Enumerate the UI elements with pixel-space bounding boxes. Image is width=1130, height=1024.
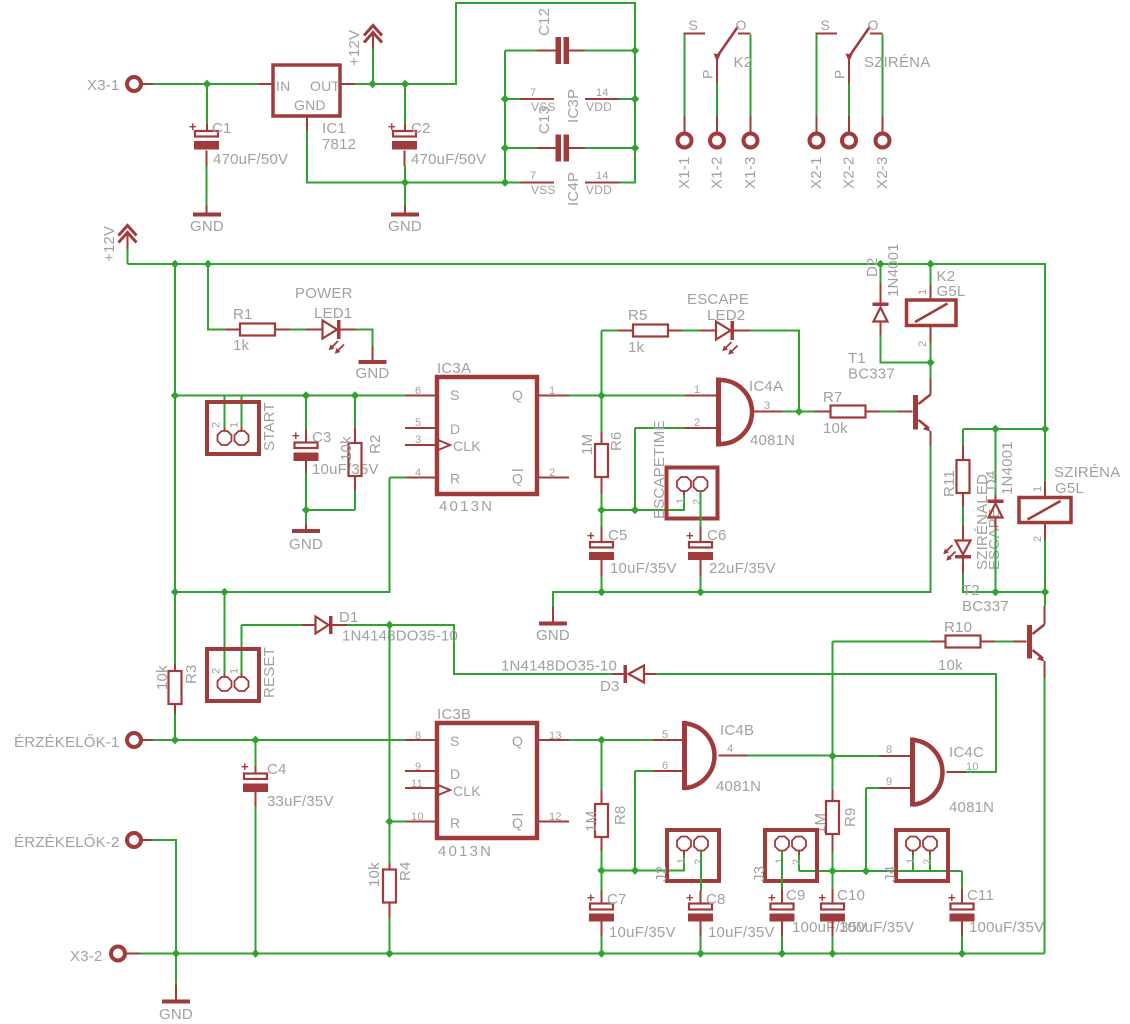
svg-text:C12: C12 [536,8,553,36]
svg-text:D3: D3 [600,678,620,695]
wire C2 top [404,84,406,124]
svg-text:10k: 10k [154,665,171,690]
svg-text:10: 10 [411,811,424,823]
wire x832 vertical R10 to R9 [832,642,834,791]
svg-text:10k: 10k [823,420,848,437]
svg-text:1k: 1k [233,337,250,354]
svg-text:33uF/35V: 33uF/35V [267,793,334,810]
LED LED1 POWER [323,321,338,339]
svg-text:R10: R10 [944,619,972,636]
svg-text:VDD: VDD [586,183,612,197]
svg-text:+: + [768,890,776,905]
svg-text:D4: D4 [983,470,1000,490]
LED LED2 ESCAPE [682,330,700,332]
svg-text:X2-3: X2-3 [874,157,891,190]
wire IC4A output to R7 [782,411,814,413]
svg-text:14: 14 [596,170,609,182]
resistor R10 10k [833,641,931,643]
svg-text:1N4148DO35-10: 1N4148DO35-10 [501,658,617,675]
junction R3 bottom [171,736,179,744]
svg-text:R7: R7 [823,389,843,406]
svg-text:J4: J4 [882,866,899,882]
capacitor C7 10uF/35V [590,904,613,910]
junction SZIRENALED D4 bottom [991,588,999,596]
svg-text:+: + [189,119,197,134]
resistor R4 10k [383,870,396,903]
svg-text:O: O [868,17,879,33]
junction VSS at pin7 IC4P [501,178,509,186]
svg-text:Q: Q [512,815,523,831]
wire C10 bottom [832,922,834,937]
power pins IC3P pin 7 VSS pin 14 VDD [520,98,620,100]
svg-text:100uF/35V: 100uF/35V [839,919,914,936]
pushbutton RESET [207,649,259,701]
svg-text:4081N: 4081N [949,799,994,816]
svg-text:1k: 1k [628,339,645,356]
svg-text:C6: C6 [707,527,727,544]
diode D4 1N4001 [995,496,997,501]
svg-text:+: + [587,528,595,543]
resistor R9 1M [826,801,839,834]
wire ERZEKELOK-1 row [141,739,153,741]
svg-text:IC4A: IC4A [749,378,783,395]
svg-text:S: S [450,387,460,403]
ground bottom left [162,1000,190,1004]
junction D1 net at x389 [385,621,393,629]
ground under C1 [193,213,221,217]
svg-text:1: 1 [675,498,687,504]
svg-text:C3: C3 [312,429,332,446]
svg-text:10uF/35V: 10uF/35V [708,924,775,941]
wire J2 row [602,852,685,871]
svg-text:C1: C1 [212,120,232,137]
svg-text:+: + [686,890,694,905]
capacitor C8 10uF/35V [689,904,712,910]
wire R2 bottom link [306,490,355,510]
junction R2 top [351,391,359,399]
junction C4 top [251,736,259,744]
svg-text:4: 4 [415,467,421,479]
junction C2 at GND net [401,178,409,186]
svg-text:470uF/50V: 470uF/50V [213,151,288,168]
svg-text:R3: R3 [183,664,200,684]
power pins IC4P pin 7 VSS pin 14 VDD [520,182,620,184]
svg-text:IN: IN [276,78,290,94]
svg-text:22uF/35V: 22uF/35V [709,560,776,577]
junction relay SZIRENA pin1 top [1041,425,1049,433]
wire C5 bottom [601,560,603,576]
wire IC3B Q net to IC4B pin5 [569,740,653,790]
svg-text:9: 9 [415,761,421,773]
svg-text:GND: GND [190,218,224,235]
junction bottom rail C7 [597,949,605,957]
svg-text:OUT: OUT [310,78,340,94]
svg-text:C4: C4 [267,761,287,778]
svg-text:1: 1 [905,858,917,864]
capacitor C6 22uF/35V [689,542,712,548]
wire START rail to IC3A S [175,395,405,397]
ground under C3 [292,529,320,533]
junction bottom rail R4 [385,949,393,957]
junction R8 bottom [597,866,605,874]
svg-text:1: 1 [694,384,700,396]
junction bottom rail C10 [828,949,836,957]
junction IC3B R pin [385,817,393,825]
junction IC3B Q output [597,736,605,744]
wire C4 bottom [255,792,257,806]
svg-text:J2: J2 [653,866,670,882]
junction VDD at pin14 IC3P [631,95,639,103]
svg-text:GND: GND [294,97,326,113]
jumper J4 [896,830,948,881]
wire IC4C pin8 net [833,755,880,757]
resistor R6 1M [601,432,603,444]
capacitor C2 470uF/50V [393,131,416,137]
svg-text:ÉRZÉKELŐK-1: ÉRZÉKELŐK-1 [14,734,120,751]
wire IC4C pin9 net [866,788,879,871]
relay contact SZIRENA switch [816,33,838,35]
svg-text:K2: K2 [734,54,753,71]
capacitor C12 [556,37,562,64]
jumper J3 [765,830,817,881]
junction C3 top [302,391,310,399]
svg-text:GND: GND [356,365,390,382]
svg-text:+12V: +12V [101,226,118,262]
junction C5 GND [597,588,605,596]
svg-text:6: 6 [415,385,421,397]
svg-text:P: P [700,69,716,79]
LED SZIRENALED [962,506,964,526]
svg-text:2: 2 [1032,536,1044,542]
junction C6 GND [696,588,704,596]
jumper ESCAPETIME [667,468,718,519]
svg-text:D: D [450,421,460,437]
junction +12V at OUT net [368,80,376,88]
svg-text:2: 2 [211,422,223,428]
svg-text:CLK: CLK [453,438,481,454]
ground middle rail [539,622,567,626]
svg-text:8: 8 [886,744,892,756]
svg-text:T1: T1 [848,350,866,367]
wire +12V rail [128,264,1046,482]
svg-text:1: 1 [1032,486,1044,492]
svg-text:Q: Q [512,733,523,749]
svg-text:10uF/35V: 10uF/35V [609,924,676,941]
svg-text:1M: 1M [579,434,596,455]
jumper J2 [667,830,719,881]
junction bottom rail C11 [958,949,966,957]
wire x389 vertical D1 to R4 [390,625,407,863]
resistor R2 10k [349,443,362,476]
svg-text:X2-2: X2-2 [841,157,858,190]
wire 429 row [963,429,1045,496]
capacitor C13 [556,135,562,162]
svg-text:1: 1 [229,668,241,674]
wire LED1 to GND [341,329,356,331]
ground under C2 [391,213,419,217]
resistor R8 1M [595,804,608,837]
svg-text:2: 2 [917,341,929,347]
AND gate IC4A 4081N [716,378,721,447]
wire J3 pad1 to C9 [781,852,783,890]
svg-text:G5L: G5L [1055,480,1084,497]
wire C6 bottom [700,560,702,576]
wire C2 bottom [404,151,406,167]
wire X3-1 to IC1 IN [141,83,258,85]
svg-text:VSS: VSS [531,183,556,197]
junction bottom rail C8 [696,949,704,957]
svg-text:IC3A: IC3A [437,360,471,377]
svg-text:C2: C2 [411,120,431,137]
wire R1 to LED1 [275,329,290,331]
pushbutton START [207,402,259,454]
AND gate IC4B 4081N [682,721,687,790]
svg-text:1: 1 [917,289,929,295]
resistor R3 10k [174,664,176,671]
svg-text:10k: 10k [938,657,963,674]
flip-flop IC3B 4013N [437,723,537,838]
capacitor C3 10uF/35V [295,443,318,449]
wire vertical x175 +12V to R3 [174,264,176,664]
svg-text:IC4P: IC4P [565,172,582,206]
wire IC4A pin1 [602,395,685,397]
svg-text:X2-1: X2-1 [808,157,825,190]
junction IC4B pin6 branch [631,866,639,874]
svg-text:IC1: IC1 [322,120,346,137]
flip-flop IC3A 4013N [437,377,537,494]
svg-text:SZIRÉNA: SZIRÉNA [1054,464,1120,481]
svg-text:X1-3: X1-3 [742,157,759,190]
svg-text:1: 1 [774,858,786,864]
wire C4 column [255,740,257,766]
resistor R1 1k [240,324,275,336]
junction R6-C5 [597,506,605,514]
junction bottom rail C4 [251,949,259,957]
svg-text:G5L: G5L [937,283,966,300]
svg-text:X1-2: X1-2 [709,157,726,190]
svg-text:1: 1 [549,385,555,397]
transistor T1 BC337 [913,395,918,430]
svg-text:X3-1: X3-1 [87,77,120,94]
svg-text:5: 5 [662,729,668,741]
svg-text:R11: R11 [941,470,958,497]
svg-text:X3-2: X3-2 [70,948,103,965]
svg-text:7: 7 [530,87,536,99]
svg-text:C10: C10 [837,887,865,904]
wire IC4A pin2 net [635,428,685,510]
svg-text:GND: GND [536,627,570,644]
junction C3-R2 bottom [302,506,310,514]
wire IC3A R net [175,478,406,593]
svg-text:R6: R6 [608,431,625,451]
svg-text:C8: C8 [706,891,726,908]
svg-text:+: + [388,119,396,134]
svg-text:ESCAPE: ESCAPE [687,291,749,308]
svg-text:LED2: LED2 [707,307,745,324]
svg-text:R1: R1 [233,306,253,323]
capacitor C4 33uF/35V [244,774,267,780]
svg-text:+: + [948,890,956,905]
wire RESET pad drops [225,592,242,674]
wire C7 column [601,871,603,891]
junction bottom rail C9 [778,949,786,957]
regulator IC1 7812 [273,65,340,116]
svg-text:LED1: LED1 [314,305,352,322]
svg-text:5: 5 [415,417,421,429]
svg-text:GND: GND [289,536,323,553]
wire C8 bottom [700,922,702,937]
junction relay pin2 T2 collector [1041,588,1049,596]
svg-text:1: 1 [229,422,241,428]
svg-text:13: 13 [549,730,562,742]
relay coil SZIRENA G5L [1019,498,1071,523]
svg-text:IC3B: IC3B [437,706,471,723]
diode D2 1N4001 [880,264,882,283]
wire X3-2 bottom rail [125,953,140,955]
capacitor C1 470uF/50V [195,131,218,137]
wire START pad drops [225,396,242,428]
svg-text:BC337: BC337 [848,366,895,383]
junction rail at x175 [171,260,179,268]
svg-text:9: 9 [886,776,892,788]
AND gate IC4C 4081N [910,738,915,807]
wire ERZEKELOK-2 to X3-2 rail [141,839,153,841]
junction at C2 top [401,80,409,88]
svg-text:14: 14 [596,87,609,99]
svg-text:3: 3 [764,400,770,412]
svg-text:IC4B: IC4B [720,722,754,739]
junction rail at relay K2 pin1 [926,260,934,268]
wire R2 top [354,396,356,429]
node X3-2 pad [111,947,125,961]
svg-text:10uF/35V: 10uF/35V [312,461,379,478]
capacitor C9 100uF/35V [771,904,794,910]
resistor R7 10k [831,406,866,418]
svg-text:POWER: POWER [295,285,353,302]
svg-text:C5: C5 [608,527,628,544]
wire D1 row [242,624,303,626]
svg-text:3: 3 [415,434,421,446]
node ERZEKELOK-1 pad [127,733,141,747]
svg-text:4081N: 4081N [716,778,761,795]
svg-text:4013N: 4013N [438,843,493,860]
junction pin9 branch [862,867,870,875]
svg-text:T2: T2 [962,582,980,599]
wire C3 bottom [305,458,307,473]
junction jumper branch [631,506,639,514]
junction rail at R1 branch [204,260,212,268]
svg-text:2: 2 [211,668,223,674]
svg-text:S: S [821,17,831,33]
svg-text:R2: R2 [367,434,384,454]
power symbol +12V left [119,226,137,236]
wire C5 column [601,510,603,527]
junction R9 bottom [828,867,836,875]
svg-text:1M: 1M [583,811,600,832]
svg-text:10k: 10k [338,436,355,461]
junction VSS at pin7 IC3P [501,95,509,103]
svg-text:2: 2 [693,859,705,865]
svg-text:+: + [686,528,694,543]
capacitor C11 100uF/35V [951,904,974,910]
svg-text:IC4C: IC4C [949,744,984,761]
svg-text:12: 12 [549,811,562,823]
svg-text:P: P [832,69,848,79]
ground under LED1 [359,360,387,364]
svg-text:100uF/35V: 100uF/35V [969,919,1044,936]
svg-text:10k: 10k [366,862,383,887]
wire C3 top [305,396,307,431]
svg-text:X1-1: X1-1 [676,157,693,190]
svg-text:C11: C11 [967,887,994,904]
svg-text:2: 2 [692,499,704,505]
svg-text:4013N: 4013N [439,498,494,515]
svg-text:C9: C9 [786,887,806,904]
wire R1 branch [208,264,225,330]
svg-text:R: R [450,471,460,487]
wire C6 column [700,492,702,528]
svg-text:11: 11 [411,778,423,790]
svg-text:470uF/50V: 470uF/50V [411,151,486,168]
svg-text:2: 2 [922,859,934,865]
svg-text:8: 8 [415,730,421,742]
svg-text:SZIRÉNA: SZIRÉNA [864,54,930,71]
svg-text:R8: R8 [612,805,629,825]
diode D3 1N4148DO35-10 [612,673,624,675]
capacitor C5 10uF/35V [590,542,613,548]
diode D1 1N4148DO35-10 [316,617,329,634]
svg-text:+: + [819,890,827,905]
wire VSS vertical rail [505,51,537,183]
svg-text:D: D [450,766,460,782]
junction bottom rail ERZ2 [172,949,180,957]
junction rail at D2 [876,260,884,268]
svg-text:1N4148DO35-10: 1N4148DO35-10 [342,628,458,645]
relay coil K2 G5L [907,300,957,326]
svg-text:+: + [241,759,249,774]
svg-text:ESCAPETIME: ESCAPETIME [651,420,668,519]
svg-text:ÉRZÉKELŐK-2: ÉRZÉKELŐK-2 [14,834,120,851]
wire jumper row [602,492,685,511]
svg-text:R5: R5 [628,307,648,324]
svg-text:2: 2 [549,467,555,479]
junction left rail at x175 [171,588,179,596]
svg-text:C13: C13 [536,106,553,134]
node ERZEKELOK-2 pad [127,833,141,847]
wire IC1 GND net [307,131,520,205]
svg-text:Q: Q [512,387,523,403]
svg-text:1N4001: 1N4001 [999,441,1016,495]
svg-text:D1: D1 [339,609,359,626]
wire GND drop bottom [175,954,177,986]
svg-text:1N4001: 1N4001 [885,243,902,297]
junction at C1 top [203,80,211,88]
svg-text:RESET: RESET [261,647,278,698]
svg-text:J3: J3 [751,866,768,882]
junction IC4B output [828,752,836,760]
junction VSS at C13 [501,144,509,152]
wire C9 bottom [781,922,783,937]
junction RESET pad2 at rail [220,588,228,596]
junction C13 right [631,144,639,152]
svg-text:GND: GND [159,1006,193,1023]
wire GND rail middle [553,446,931,607]
wire IC4B pin6 net [635,771,653,871]
svg-text:S: S [450,733,460,749]
junction IC4A output [795,407,803,415]
resistor R11 [962,446,964,461]
wire C1 top [206,84,208,124]
